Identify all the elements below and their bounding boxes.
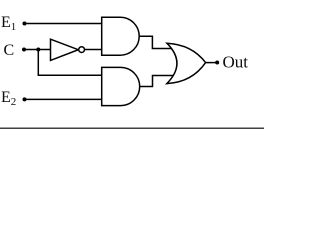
svg-text:C: C [4,42,15,59]
svg-text:Out: Out [223,52,249,71]
